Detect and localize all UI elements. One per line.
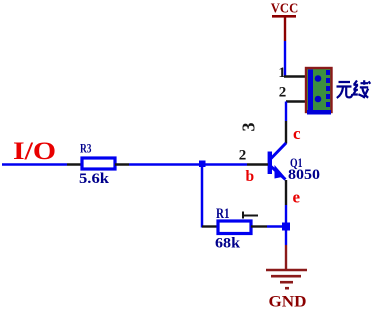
wire emitter vertical blue: [285, 205, 287, 227]
svg-text:VCC: VCC: [271, 1, 299, 16]
svg-text:2: 2: [239, 148, 247, 164]
wire to ground blue: [285, 230, 287, 245]
svg-text:5.6k: 5.6k: [79, 171, 110, 187]
wire R3 to junction blue: [129, 163, 203, 166]
svg-text:e: e: [293, 188, 301, 207]
wire collector vertical blue: [285, 102, 287, 122]
svg-text:8050: 8050: [288, 167, 320, 183]
svg-text:3: 3: [239, 123, 259, 132]
transistor Q1: [268, 143, 286, 180]
junction base node: [199, 161, 206, 168]
svg-text:68k: 68k: [215, 236, 241, 252]
wire connector pin1 horizontal: [284, 75, 306, 78]
wire collector vertical black: [285, 121, 287, 144]
wire VCC vertical red: [284, 17, 286, 41]
wire R1 to emitter junction blue: [267, 225, 286, 227]
wire base blue: [203, 163, 247, 166]
svg-text:2: 2: [279, 85, 287, 101]
wire to ground dark red: [285, 245, 287, 270]
svg-text:1: 1: [278, 65, 285, 81]
wire to R1 black: [202, 225, 218, 227]
power VCC: [271, 1, 299, 18]
resistor R1 body: [218, 221, 251, 234]
svg-text:R1: R1: [216, 206, 230, 222]
resistor R3 body: [82, 158, 115, 169]
connector label (CJK): [337, 80, 371, 98]
wire base black: [247, 163, 268, 166]
svg-text:I/O: I/O: [13, 138, 56, 165]
svg-text:GND: GND: [269, 294, 307, 311]
junction emitter node: [282, 223, 290, 231]
svg-text:c: c: [293, 124, 301, 143]
wire to R3 black: [67, 163, 82, 166]
svg-text:R3: R3: [80, 141, 92, 156]
svg-text:b: b: [246, 168, 255, 185]
wire junction down blue: [201, 165, 204, 228]
connector J1 body: [306, 68, 332, 115]
wire VCC vertical blue: [284, 41, 286, 77]
wire R1 right black: [251, 225, 267, 227]
wire I/O blue: [2, 163, 67, 166]
pin number 1 (R1, rotated marker): [243, 212, 258, 219]
wire connector pin2 horizontal: [286, 100, 306, 103]
wire R3 right black: [115, 163, 129, 166]
ground symbol: [266, 270, 307, 288]
wire emitter vertical black: [285, 180, 287, 205]
